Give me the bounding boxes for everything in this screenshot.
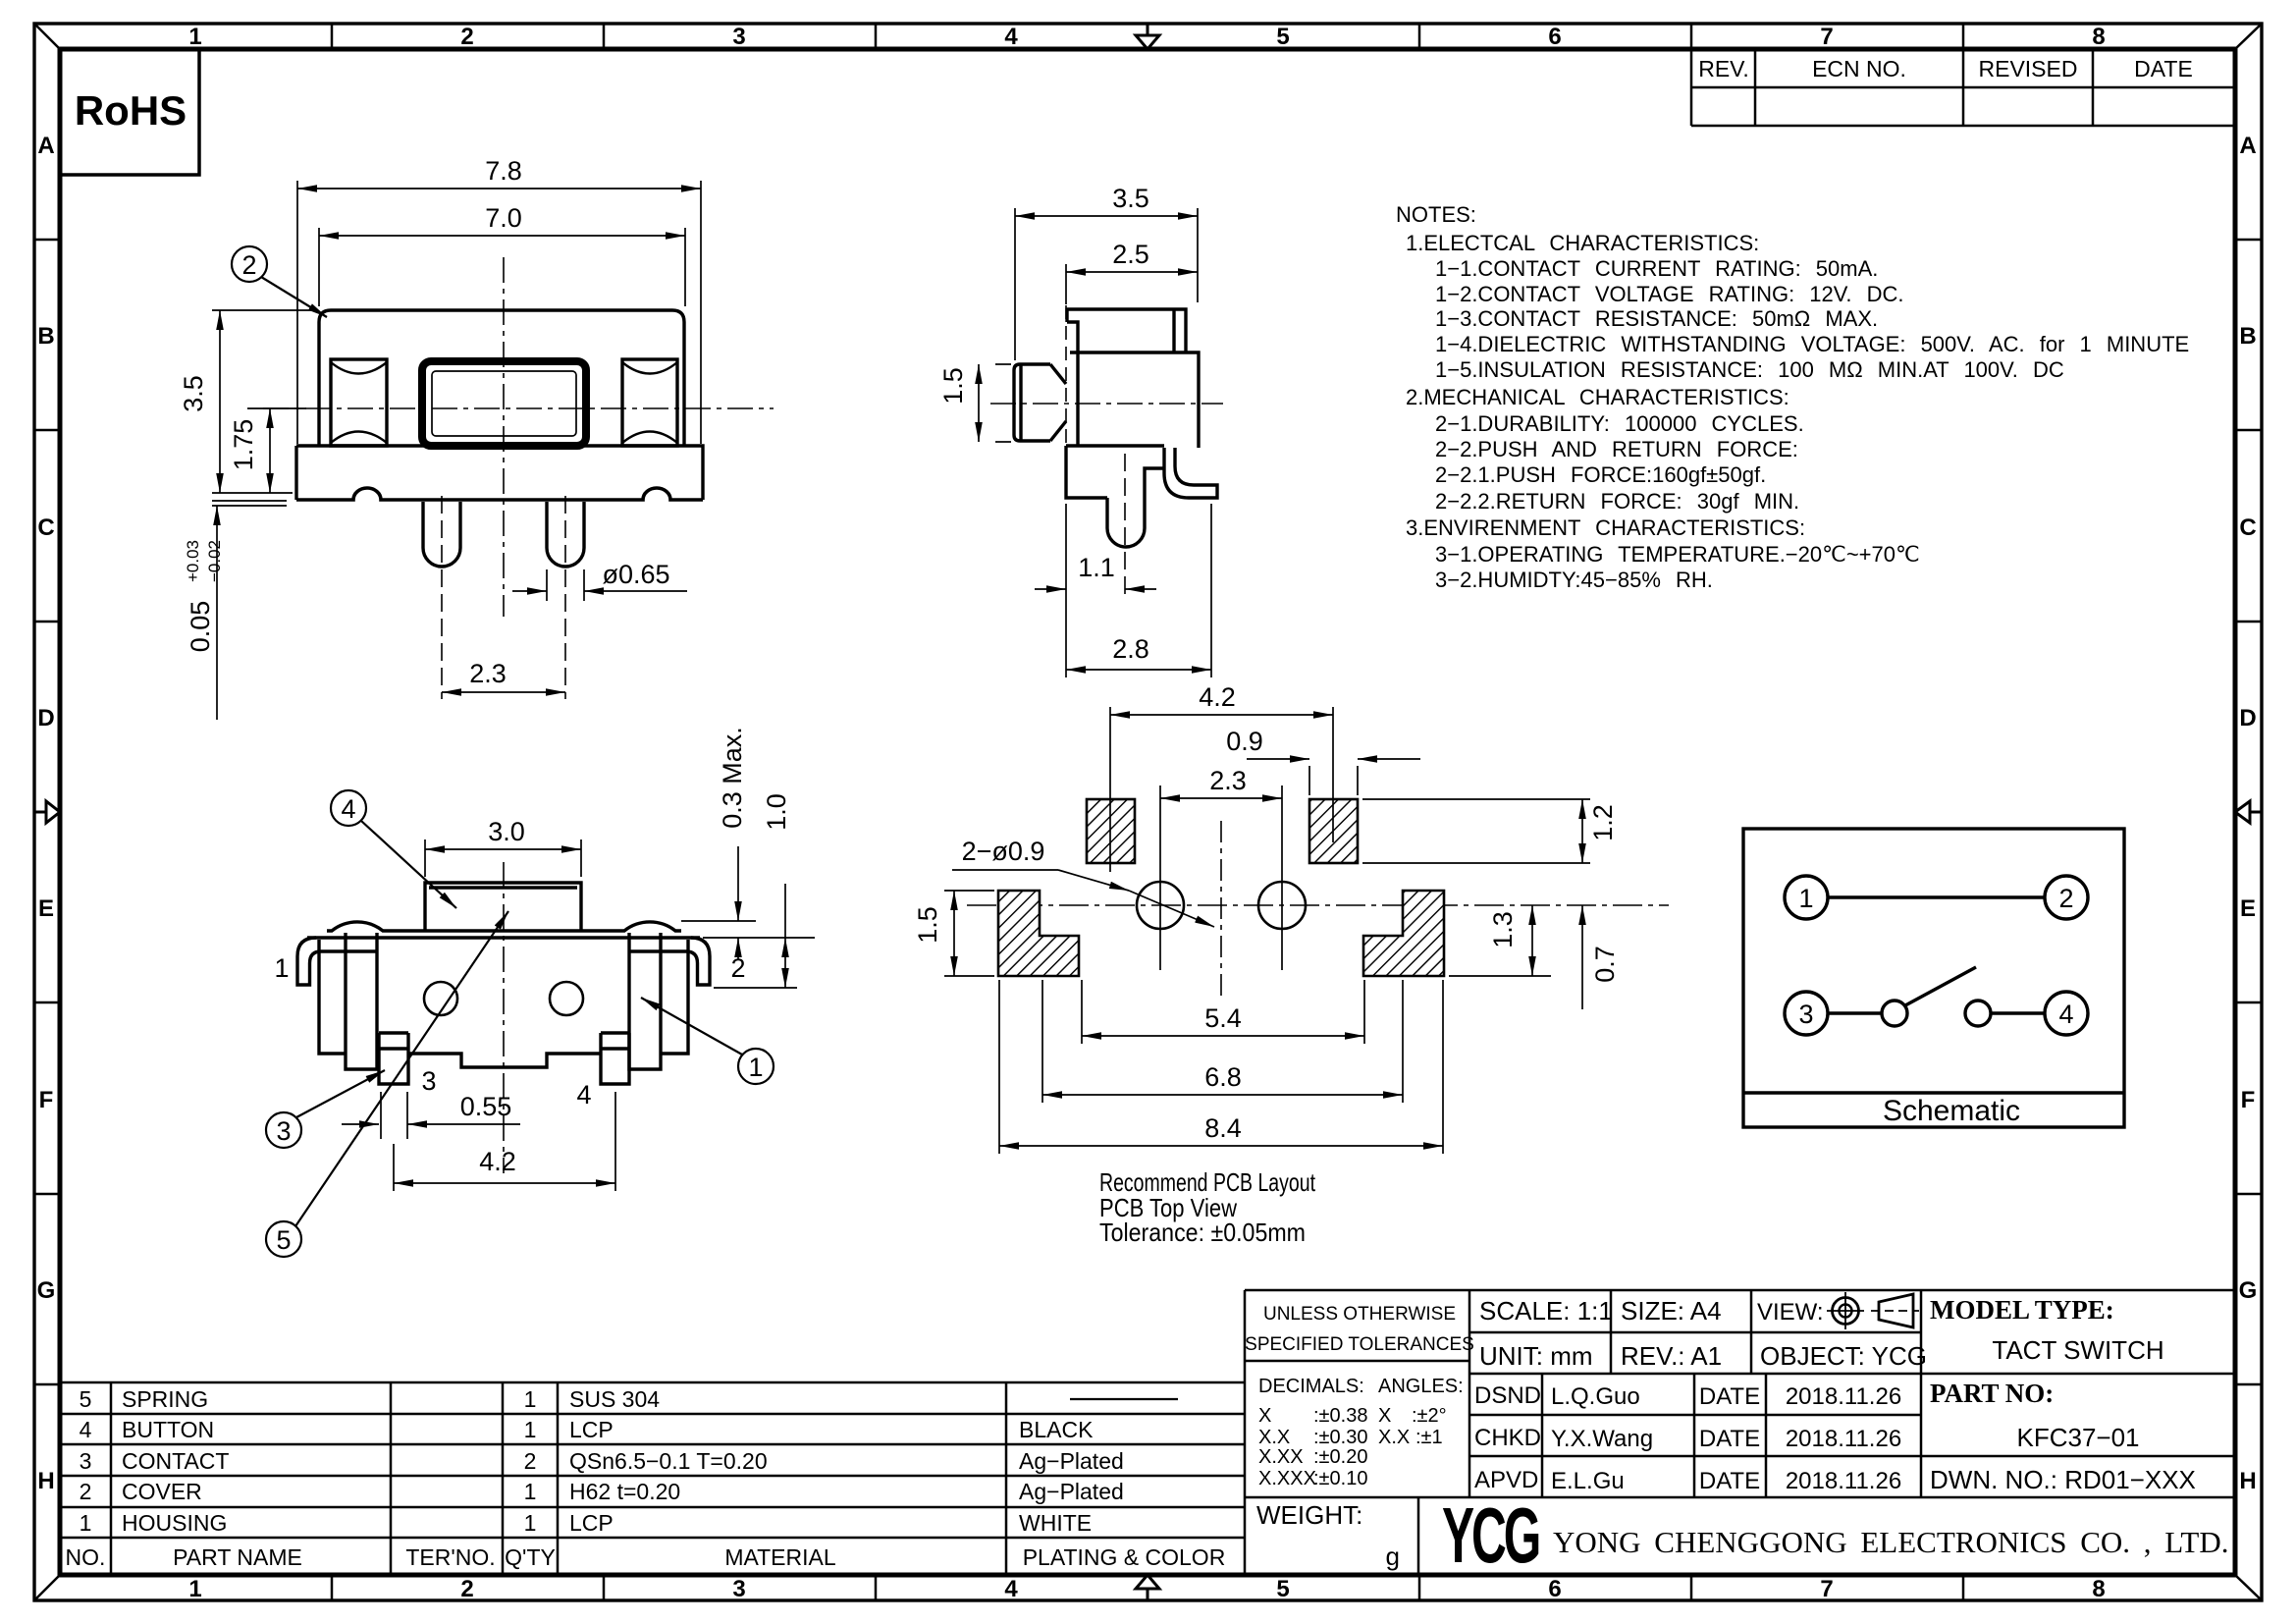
svg-text:3: 3 (421, 1066, 436, 1096)
revision table (1691, 49, 2235, 126)
svg-text:TACT SWITCH: TACT SWITCH (1992, 1335, 2163, 1365)
svg-text:H62 t=0.20: H62 t=0.20 (569, 1479, 680, 1504)
svg-text:g: g (1386, 1542, 1400, 1571)
svg-text:7.0: 7.0 (485, 203, 522, 233)
back view: terminal 4 leg (601, 1033, 629, 1084)
schematic contact a (1882, 1001, 1907, 1026)
svg-text:TER'NO.: TER'NO. (405, 1544, 495, 1570)
svg-text:NO.: NO. (66, 1544, 106, 1570)
svg-text:4: 4 (341, 794, 355, 824)
dimension 2.8 side (1066, 504, 1211, 677)
side view: bent terminal lead (1164, 448, 1217, 498)
svg-text:Y.X.Wang: Y.X.Wang (1551, 1426, 1653, 1452)
dsnd row (1474, 1382, 1901, 1410)
side view: button nose (1014, 364, 1066, 441)
svg-text:3.5: 3.5 (1112, 184, 1149, 213)
dimension 2.3 (442, 691, 565, 693)
svg-text:YCG: YCG (1442, 1492, 1538, 1580)
schematic wire 1-2 (1828, 895, 2045, 898)
RoHS box (60, 49, 199, 175)
svg-text:0.9: 0.9 (1226, 727, 1263, 756)
svg-text:8: 8 (2092, 24, 2105, 50)
back view: housing bottom edge (408, 1054, 601, 1067)
left centering mark (34, 801, 60, 823)
svg-text::±2°: :±2° (1412, 1405, 1447, 1427)
svg-text:LCP: LCP (569, 1510, 614, 1536)
svg-text:E: E (38, 895, 54, 922)
svg-text:CONTACT: CONTACT (122, 1448, 229, 1474)
back view: cover top edge with tabs (327, 922, 681, 931)
pcb layout: right L pad (1363, 891, 1444, 976)
back view: left hole (424, 982, 457, 1015)
schematic terminal 2 (2045, 876, 2088, 919)
svg-text:A: A (37, 133, 54, 159)
pcb layout: left L pad (998, 891, 1079, 976)
back view: housing top line (307, 936, 700, 939)
front view: cover outline item2 (319, 310, 684, 446)
dimension 1.5 pcb (944, 891, 994, 976)
back view: left cover skirt (319, 940, 346, 1054)
svg-text:B: B (37, 323, 54, 350)
svg-text:8: 8 (2092, 1576, 2105, 1602)
svg-text:DWN. NO.: RD01−XXX: DWN. NO.: RD01−XXX (1930, 1465, 2196, 1494)
svg-text:6.8: 6.8 (1204, 1062, 1242, 1092)
svg-text:3: 3 (1798, 1000, 1813, 1029)
schematic wire contact-4 (1991, 1011, 2045, 1014)
pcb layout caption (1099, 1167, 1316, 1247)
svg-text:CHKD: CHKD (1474, 1425, 1541, 1451)
front view: left pin centerline (441, 496, 443, 699)
schematic terminal 3 (1785, 992, 1828, 1035)
parts list row 1 housing (80, 1510, 1093, 1536)
front view: left pin (423, 502, 460, 567)
svg-text:SUS 304: SUS 304 (569, 1386, 660, 1412)
svg-text:2.3: 2.3 (1209, 766, 1247, 795)
zone numbers bottom (188, 1576, 2105, 1602)
balloon 1 housing (641, 998, 774, 1084)
svg-text:APVD: APVD (1474, 1467, 1538, 1493)
svg-text:1.0: 1.0 (762, 793, 791, 831)
svg-text:HOUSING: HOUSING (122, 1510, 227, 1536)
dimension 0.7 pcb (1581, 905, 1583, 1009)
pcb layout: right hole (1258, 785, 1306, 970)
dimension 1.3 pcb (1449, 905, 1551, 976)
front view: button item4 (422, 361, 586, 446)
svg-text:2−ø0.9: 2−ø0.9 (962, 837, 1045, 866)
front view: vertical centerline (503, 257, 505, 617)
svg-text:DATE: DATE (1699, 1383, 1760, 1410)
svg-text:SPECIFIED TOLERANCES: SPECIFIED TOLERANCES (1245, 1334, 1474, 1355)
svg-text:1.5: 1.5 (938, 367, 968, 405)
svg-text:MODEL TYPE:: MODEL TYPE: (1930, 1295, 2114, 1325)
front view: housing bottom edge with standoff notches (296, 488, 703, 500)
svg-text:C: C (2239, 514, 2256, 541)
side view: hidden edge dashed (1065, 305, 1067, 446)
svg-text:COVER: COVER (122, 1479, 202, 1504)
label 2-dia0.9 (952, 837, 1214, 927)
svg-text:MATERIAL: MATERIAL (724, 1544, 836, 1570)
svg-text:7: 7 (1820, 1576, 1833, 1602)
svg-text:4: 4 (1004, 1576, 1018, 1602)
svg-text:H: H (2239, 1468, 2256, 1494)
pcb layout: left hole (1137, 785, 1184, 970)
revision table headers (1698, 56, 2193, 81)
svg-text:1: 1 (188, 24, 201, 50)
svg-text:F: F (2241, 1087, 2256, 1113)
schematic contact b (1965, 1001, 1991, 1026)
svg-text:REV.: A1: REV.: A1 (1621, 1341, 1722, 1371)
parts list row 4 button (80, 1417, 1094, 1442)
zone letters right (2239, 133, 2258, 1494)
svg-text:OBJECT: YCG: OBJECT: YCG (1760, 1341, 1927, 1371)
dimension 5.4 pcb (1082, 980, 1364, 1044)
back view: right hole (550, 982, 583, 1015)
svg-text:1: 1 (524, 1386, 537, 1412)
svg-text:1.3: 1.3 (1488, 911, 1518, 948)
svg-text:Tolerance: ±0.05mm: Tolerance: ±0.05mm (1099, 1218, 1306, 1247)
view symbol cone (1871, 1294, 1919, 1327)
svg-text:1.1: 1.1 (1078, 553, 1115, 582)
zone tick marks left and right (34, 240, 2262, 1384)
notes text block (1396, 202, 2189, 592)
back view: terminal 1 hook (297, 938, 377, 985)
svg-text:X: X (1258, 1405, 1271, 1427)
svg-text:1: 1 (274, 953, 289, 983)
svg-text:SIZE: A4: SIZE: A4 (1621, 1296, 1722, 1326)
side view: cover top section (1067, 309, 1186, 352)
front view: right pin centerline (564, 496, 566, 699)
svg-text:E.L.Gu: E.L.Gu (1551, 1468, 1625, 1494)
svg-text:4: 4 (1004, 24, 1018, 50)
svg-text:5: 5 (80, 1386, 92, 1412)
parts list row 2 cover (80, 1479, 1124, 1504)
svg-text:6: 6 (1548, 1576, 1561, 1602)
svg-text:2−2.2.RETURN FORCE: 30gf MI: 2−2.2.RETURN FORCE: 30gf MIN. (1435, 489, 1799, 514)
svg-text:1−5.INSULATION RESISTANCE: 1: 1−5.INSULATION RESISTANCE: 100 MΩ MIN.AT… (1435, 357, 2064, 382)
zone numbers top (188, 24, 2105, 50)
svg-text:3.0: 3.0 (488, 817, 525, 846)
dimension 1.1 side (1035, 504, 1156, 677)
dimension 3.5 side (1015, 208, 1198, 360)
svg-text:4: 4 (80, 1417, 92, 1442)
svg-text:1: 1 (188, 1576, 201, 1602)
svg-text:2−2.PUSH AND RETURN FORCE:: 2−2.PUSH AND RETURN FORCE: (1435, 437, 1798, 461)
dimension 4.2 pcb (1110, 707, 1333, 872)
front view: housing base (296, 446, 703, 500)
svg-text:PART NO:: PART NO: (1930, 1379, 2054, 1408)
svg-text:2: 2 (241, 250, 256, 280)
svg-text:1: 1 (524, 1417, 537, 1442)
svg-text:QSn6.5−0.1 T=0.20: QSn6.5−0.1 T=0.20 (569, 1448, 768, 1474)
back view: button top (425, 883, 581, 931)
pcb layout: vertical centerline (1220, 821, 1222, 1000)
svg-text:2.8: 2.8 (1112, 634, 1149, 664)
svg-text:DATE: DATE (1699, 1468, 1760, 1494)
svg-text::±0.30: :±0.30 (1313, 1427, 1367, 1448)
back view: terminal 2 hook (629, 938, 710, 985)
svg-text:1: 1 (748, 1053, 763, 1082)
svg-text:PLATING & COLOR: PLATING & COLOR (1023, 1544, 1226, 1570)
view symbol target (1827, 1292, 1864, 1329)
svg-text:1.ELECTCAL CHARACTERISTICS:: 1.ELECTCAL CHARACTERISTICS: (1406, 231, 1759, 255)
svg-text:1.75: 1.75 (229, 419, 258, 471)
svg-text:4: 4 (576, 1080, 591, 1110)
svg-text:Schematic: Schematic (1883, 1095, 2020, 1127)
side view: main body (1070, 352, 1199, 448)
svg-text:BLACK: BLACK (1019, 1417, 1094, 1442)
parts list row 5 spring (80, 1386, 661, 1412)
svg-text:B: B (2239, 323, 2256, 350)
pcb layout: horizontal centerline (967, 904, 1669, 906)
front view: right cover window (622, 359, 677, 446)
svg-text:LCP: LCP (569, 1417, 614, 1442)
svg-text:6: 6 (1548, 24, 1561, 50)
dimension 0.55 (342, 1092, 520, 1139)
svg-text:Ag−Plated: Ag−Plated (1019, 1448, 1124, 1474)
side view: bottom block (1066, 446, 1164, 498)
svg-text:5.4: 5.4 (1204, 1003, 1242, 1033)
svg-text:E: E (2240, 895, 2256, 922)
svg-text:1: 1 (524, 1479, 537, 1504)
svg-text:3: 3 (80, 1448, 92, 1474)
svg-text:3: 3 (276, 1116, 291, 1146)
svg-text:REVISED: REVISED (1979, 56, 2078, 81)
svg-text:5: 5 (1276, 1576, 1289, 1602)
svg-text:X.X: X.X (1378, 1427, 1410, 1448)
svg-text:VIEW:: VIEW: (1757, 1299, 1824, 1326)
svg-text:0.05: 0.05 (186, 601, 215, 653)
balloon 5 spring (266, 911, 508, 1257)
svg-text:7: 7 (1820, 24, 1833, 50)
svg-text::±1: :±1 (1415, 1427, 1443, 1448)
schematic terminal 4 (2045, 992, 2088, 1035)
chkd row (1474, 1425, 1901, 1452)
pcb layout: top pad A (1087, 799, 1135, 863)
svg-text:1−1.CONTACT CURRENT RATING:: 1−1.CONTACT CURRENT RATING: 50mA. (1435, 256, 1878, 281)
back view: left side flap (346, 933, 377, 1069)
svg-text:WEIGHT:: WEIGHT: (1256, 1500, 1362, 1530)
svg-text:2018.11.26: 2018.11.26 (1786, 1468, 1901, 1494)
svg-text:1: 1 (1798, 884, 1813, 913)
zone tick marks bottom (332, 1575, 1963, 1600)
svg-text:DATE: DATE (1699, 1426, 1760, 1452)
svg-text:SCALE: 1:1: SCALE: 1:1 (1479, 1296, 1613, 1326)
svg-text:SPRING: SPRING (122, 1386, 208, 1412)
svg-text:G: G (2239, 1277, 2258, 1304)
dimension 1.0 (714, 884, 797, 988)
parts list table grid (60, 1290, 1245, 1575)
dimension 3.5 vertical (212, 310, 314, 493)
svg-text:DATE: DATE (2134, 56, 2193, 81)
svg-text:2: 2 (460, 24, 473, 50)
svg-text:5: 5 (276, 1225, 291, 1255)
dimension 3.0 (425, 839, 581, 877)
zone tick marks top (332, 24, 1963, 49)
svg-text:Q'TY: Q'TY (505, 1544, 556, 1570)
svg-text:1: 1 (524, 1510, 537, 1536)
svg-text:WHITE: WHITE (1019, 1510, 1092, 1536)
right centering mark (2235, 801, 2262, 823)
svg-text:X.X: X.X (1258, 1427, 1290, 1448)
pcb layout: top pad B (1309, 799, 1358, 863)
svg-text::±0.38: :±0.38 (1313, 1405, 1367, 1427)
parts list row 3 contact (80, 1448, 1124, 1474)
svg-text:UNIT: mm: UNIT: mm (1479, 1341, 1593, 1371)
dimension 0.3 Max (681, 846, 815, 959)
svg-text:2−2.1.PUSH FORCE:160gf±50gf.: 2−2.1.PUSH FORCE:160gf±50gf. (1435, 462, 1766, 487)
svg-text:4.2: 4.2 (1199, 682, 1236, 712)
svg-text:D: D (37, 705, 54, 731)
svg-text:ø0.65: ø0.65 (602, 560, 669, 589)
svg-text:3−2.HUMIDTY:45−85% RH.: 3−2.HUMIDTY:45−85% RH. (1435, 568, 1713, 592)
svg-text:1−2.CONTACT VOLTAGE RATING:: 1−2.CONTACT VOLTAGE RATING: 12V. DC. (1435, 282, 1904, 306)
dimension 7.0 (319, 228, 685, 306)
dimension 2.3 pcb (1160, 797, 1282, 799)
svg-text:0.7: 0.7 (1590, 946, 1620, 983)
svg-text:DECIMALS:: DECIMALS: (1258, 1376, 1364, 1397)
side view: pin (1107, 498, 1145, 547)
balloon 4 button (331, 790, 456, 908)
bottom centering mark (1136, 1575, 1159, 1600)
svg-text:4.2: 4.2 (479, 1147, 516, 1176)
svg-text:1.2: 1.2 (1588, 804, 1618, 841)
svg-text:X: X (1378, 1405, 1391, 1427)
svg-text:2: 2 (2058, 884, 2073, 913)
balloon 3 contact (266, 1070, 385, 1148)
dimension 0.05 +0.03/-0.02 (212, 501, 287, 720)
svg-text:BUTTON: BUTTON (122, 1417, 214, 1442)
balloon 2 cover (232, 246, 327, 317)
side view: pin centerline (1124, 454, 1126, 601)
svg-text:RoHS: RoHS (75, 87, 187, 134)
svg-text:KFC37−01: KFC37−01 (2016, 1423, 2139, 1452)
svg-text:YONG CHENGGONG ELECTRONICS CO.: YONG CHENGGONG ELECTRONICS CO. , LTD. (1553, 1525, 2228, 1559)
svg-text:3−1.OPERATING TEMPERATURE.−20: 3−1.OPERATING TEMPERATURE.−20℃~+70℃ (1435, 542, 1920, 567)
back view: pin number labels (274, 953, 745, 1110)
svg-text:H: H (37, 1468, 54, 1494)
side view: horizontal centerline (990, 403, 1223, 405)
dimension 0.9 pcb (1247, 759, 1420, 795)
svg-text:2: 2 (460, 1576, 473, 1602)
svg-text:−0.02: −0.02 (205, 540, 224, 582)
svg-text:Ag−Plated: Ag−Plated (1019, 1479, 1124, 1504)
svg-text:X.XXX: X.XXX (1258, 1468, 1316, 1489)
dimension 1.2 pcb (1362, 799, 1590, 863)
dimension 1.75 vertical (247, 408, 306, 493)
svg-text:UNLESS OTHERWISE: UNLESS OTHERWISE (1263, 1304, 1456, 1325)
svg-text:DSND: DSND (1474, 1382, 1541, 1409)
dimension 1.5 side (979, 364, 1011, 442)
svg-text:A: A (2239, 133, 2256, 159)
schematic box (1743, 829, 2124, 1127)
dimension 8.4 pcb (999, 980, 1443, 1154)
svg-text:2−1.DURABILITY: 100000 CYCLE: 2−1.DURABILITY: 100000 CYCLES. (1435, 411, 1804, 436)
svg-text:5: 5 (1276, 24, 1289, 50)
svg-text:ANGLES:: ANGLES: (1378, 1376, 1464, 1397)
svg-text:2018.11.26: 2018.11.26 (1786, 1426, 1901, 1452)
top centering mark (1136, 24, 1159, 49)
svg-text:0.55: 0.55 (460, 1092, 512, 1121)
svg-text:X.XX: X.XX (1258, 1446, 1304, 1468)
dimension 6.8 pcb (1042, 980, 1403, 1103)
dimension 4.2 back view (394, 1092, 615, 1191)
svg-text:D: D (2239, 705, 2256, 731)
svg-text::±0.10: :±0.10 (1313, 1468, 1367, 1489)
svg-text:2.3: 2.3 (469, 659, 507, 688)
svg-text:PART NAME: PART NAME (173, 1544, 302, 1570)
svg-text:7.8: 7.8 (485, 156, 522, 186)
tolerances header (1245, 1304, 1474, 1355)
back view: terminal 3 leg (379, 1033, 408, 1084)
svg-text:+0.03: +0.03 (184, 540, 202, 582)
back view: vertical centerline (503, 862, 505, 1173)
svg-text:2.5: 2.5 (1112, 240, 1149, 269)
front view: left cover window (331, 359, 387, 446)
svg-text::±0.20: :±0.20 (1313, 1446, 1367, 1468)
zone letters left (37, 133, 56, 1494)
svg-text:2: 2 (80, 1479, 92, 1504)
schematic switch arm (1905, 967, 1976, 1005)
svg-text:NOTES:: NOTES: (1396, 202, 1476, 227)
svg-text:3: 3 (732, 24, 745, 50)
scale size view row (1479, 1296, 1824, 1326)
svg-text:3: 3 (732, 1576, 745, 1602)
svg-text:1−3.CONTACT RESISTANCE: 50mΩ: 1−3.CONTACT RESISTANCE: 50mΩ MAX. (1435, 306, 1878, 331)
front view: horizontal centerline (263, 407, 774, 409)
title block grid (1245, 1290, 2235, 1575)
back view: right side flap (629, 933, 661, 1069)
front view: right pin (547, 502, 584, 567)
svg-text:3.5: 3.5 (179, 375, 208, 412)
dimension 7.8 (297, 181, 701, 444)
schematic wire 3-contact (1828, 1011, 1882, 1014)
svg-text:1: 1 (80, 1510, 92, 1536)
svg-text:C: C (37, 514, 54, 541)
decimals angles block (1258, 1376, 1464, 1489)
unit rev object row (1479, 1341, 1927, 1371)
svg-text:0.3 Max.: 0.3 Max. (718, 727, 747, 829)
svg-text:2: 2 (524, 1448, 537, 1474)
svg-text:G: G (37, 1277, 56, 1304)
svg-text:2.MECHANICAL CHARACTERISTICS:: 2.MECHANICAL CHARACTERISTICS: (1406, 385, 1789, 409)
svg-text:4: 4 (2058, 1000, 2073, 1029)
svg-text:8.4: 8.4 (1204, 1113, 1242, 1143)
schematic terminal 1 (1785, 876, 1828, 919)
dimension diameter 0.65 (512, 569, 687, 601)
back view: right cover skirt (661, 940, 688, 1054)
svg-text:1.5: 1.5 (913, 906, 942, 944)
svg-text:F: F (39, 1087, 54, 1113)
svg-text:1−4.DIELECTRIC WITHSTANDING: 1−4.DIELECTRIC WITHSTANDING VOLTAGE: 500… (1435, 332, 2189, 356)
svg-text:2018.11.26: 2018.11.26 (1786, 1383, 1901, 1410)
dimension 2.5 side (1066, 264, 1198, 304)
parts list header row (66, 1544, 1226, 1570)
svg-text:REV.: REV. (1698, 56, 1749, 81)
apvd row (1474, 1467, 1901, 1494)
svg-text:L.Q.Guo: L.Q.Guo (1551, 1383, 1640, 1410)
svg-text:ECN NO.: ECN NO. (1812, 56, 1906, 81)
svg-text:3.ENVIRENMENT CHARACTERISTICS: 3.ENVIRENMENT CHARACTERISTICS: (1406, 515, 1805, 540)
